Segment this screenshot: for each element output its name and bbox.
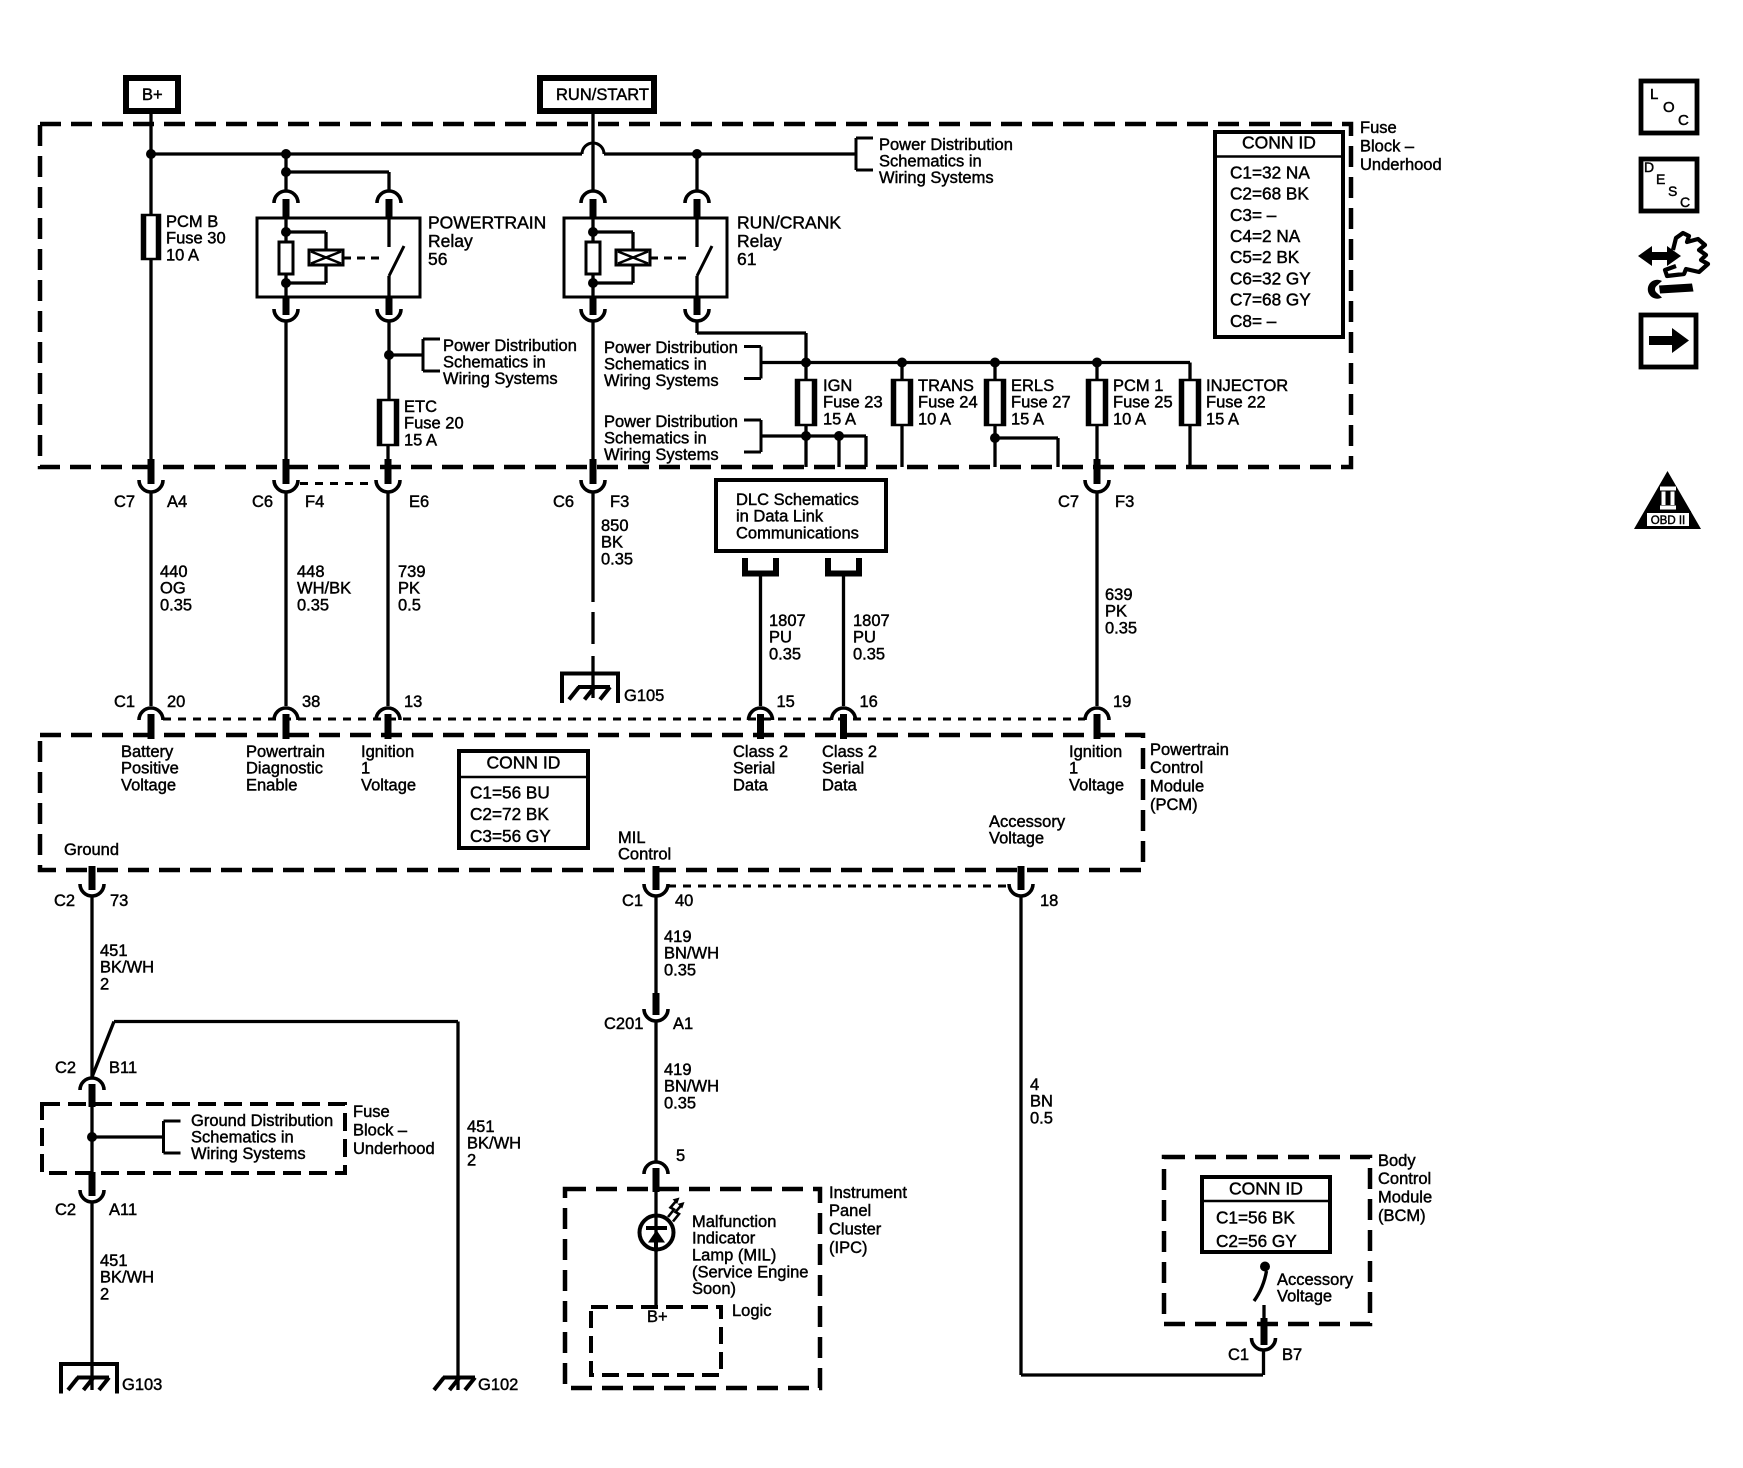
- svg-text:C1: C1: [114, 693, 135, 711]
- connector C1/B7: [1261, 1318, 1268, 1345]
- svg-text:D: D: [1644, 159, 1654, 175]
- svg-text:451: 451: [100, 942, 128, 960]
- svg-text:Cluster: Cluster: [829, 1221, 882, 1239]
- connector arc PCM pin 19: [1085, 708, 1109, 720]
- wire branch to G102: [92, 1022, 114, 1078]
- connector arc PCM pin 38: [274, 708, 298, 720]
- wire lower power distribution tap: [761, 434, 866, 437]
- svg-text:Relay: Relay: [428, 231, 473, 251]
- ground distribution dashed box: [42, 1104, 345, 1173]
- svg-text:PU: PU: [769, 629, 792, 647]
- battery terminal B+: [126, 78, 178, 111]
- svg-text:10 A: 10 A: [1113, 411, 1146, 429]
- relay RUN/CRANK 61 box: [564, 218, 727, 297]
- node coil top: [588, 227, 598, 237]
- fuse IGN Fuse 23 15A: [796, 380, 816, 425]
- svg-text:Schematics in: Schematics in: [879, 152, 982, 170]
- wire pin5 to MIL lamp: [654, 1192, 657, 1252]
- svg-text:10 A: 10 A: [166, 247, 199, 265]
- svg-text:BN/WH: BN/WH: [664, 945, 719, 963]
- svg-text:E6: E6: [409, 493, 429, 511]
- svg-text:2: 2: [100, 1286, 109, 1304]
- svg-text:PCM B: PCM B: [166, 213, 218, 231]
- connector C6/F4: [283, 459, 290, 484]
- svg-text:Fuse 22: Fuse 22: [1206, 394, 1266, 412]
- fuse PCM B Fuse 30 10A: [142, 215, 160, 259]
- svg-text:38: 38: [302, 693, 320, 711]
- svg-text:C1: C1: [1228, 1346, 1249, 1364]
- svg-text:INJECTOR: INJECTOR: [1206, 377, 1288, 395]
- svg-text:DLC Schematics: DLC Schematics: [736, 491, 859, 509]
- svg-text:Fuse: Fuse: [1360, 119, 1397, 137]
- node ground dist tap: [87, 1132, 97, 1142]
- svg-text:C3=56 GY: C3=56 GY: [470, 826, 551, 846]
- wire drop to powertrain relay coil: [284, 154, 287, 191]
- ground G105: [562, 674, 618, 704]
- relay POWERTRAIN 56 box: [257, 218, 420, 297]
- svg-text:PK: PK: [398, 580, 420, 598]
- icon OBD II: [1634, 471, 1701, 529]
- icon LOC: [1641, 81, 1697, 133]
- svg-text:40: 40: [675, 892, 693, 910]
- ground G103: [61, 1364, 117, 1394]
- node feeder/TRANS: [897, 358, 907, 368]
- svg-text:C8= –: C8= –: [1230, 311, 1277, 331]
- svg-text:Relay: Relay: [737, 231, 782, 251]
- svg-text:Accessory: Accessory: [989, 813, 1066, 831]
- wire IGN fuse output: [804, 425, 807, 467]
- svg-text:BN/WH: BN/WH: [664, 1078, 719, 1096]
- connector C7/A4: [148, 459, 155, 484]
- wire drop to run/crank switch: [695, 154, 698, 191]
- svg-text:B+: B+: [142, 86, 163, 104]
- svg-text:0.35: 0.35: [664, 962, 696, 980]
- svg-text:F3: F3: [610, 493, 629, 511]
- svg-text:C7=68 GY: C7=68 GY: [1230, 290, 1311, 310]
- terminal RUN/START: [540, 78, 654, 111]
- svg-text:15 A: 15 A: [1011, 411, 1044, 429]
- svg-text:1: 1: [1069, 760, 1078, 778]
- svg-text:1: 1: [361, 760, 370, 778]
- svg-text:BN: BN: [1030, 1093, 1053, 1111]
- node second tap: [834, 431, 844, 441]
- dotted link MIL-accessory: [668, 885, 1009, 888]
- svg-text:15 A: 15 A: [823, 411, 856, 429]
- svg-text:Power Distribution: Power Distribution: [879, 136, 1013, 154]
- connector arc powertrain relay pin bottom x=286: [283, 297, 290, 315]
- wire PCM1 fuse output: [1095, 425, 1098, 461]
- svg-text:Data: Data: [733, 777, 769, 795]
- svg-text:Body: Body: [1378, 1152, 1416, 1170]
- connector C7/F3: [1094, 459, 1101, 484]
- svg-text:0.35: 0.35: [1105, 620, 1137, 638]
- wire INJECTOR fuse output: [1188, 425, 1191, 467]
- svg-text:Fuse: Fuse: [353, 1103, 390, 1121]
- svg-text:451: 451: [100, 1252, 128, 1270]
- svg-text:BK/WH: BK/WH: [467, 1135, 521, 1153]
- svg-text:Module: Module: [1150, 778, 1204, 796]
- svg-text:0.35: 0.35: [853, 646, 885, 664]
- svg-text:1807: 1807: [853, 612, 890, 630]
- svg-text:Powertrain: Powertrain: [246, 743, 325, 761]
- wire feeder drops: [804, 363, 807, 381]
- svg-text:Communications: Communications: [736, 525, 859, 543]
- svg-text:A11: A11: [109, 1201, 137, 1219]
- svg-text:Fuse 20: Fuse 20: [404, 415, 464, 433]
- svg-text:C1=56 BU: C1=56 BU: [470, 782, 550, 802]
- svg-text:S: S: [1668, 183, 1677, 199]
- svg-text:Schematics in: Schematics in: [604, 429, 707, 447]
- DLC schematics box: [716, 480, 886, 551]
- fuse TRANS Fuse 24 10A: [892, 380, 912, 425]
- svg-text:TRANS: TRANS: [918, 377, 974, 395]
- svg-text:(PCM): (PCM): [1150, 796, 1198, 814]
- wire 1807 PU 0.35 (left): [759, 576, 762, 707]
- svg-text:Wiring Systems: Wiring Systems: [443, 370, 558, 388]
- wire ERLS fuse output: [993, 425, 996, 467]
- svg-text:C: C: [1680, 194, 1690, 210]
- svg-text:C2: C2: [55, 1201, 76, 1219]
- fuse ETC Fuse 20 15A: [378, 400, 398, 445]
- wire powertrain coil to C6/F4: [284, 321, 287, 461]
- svg-text:13: 13: [404, 693, 422, 711]
- connector arc PCM pin 13: [376, 708, 400, 720]
- svg-text:Wiring Systems: Wiring Systems: [879, 169, 994, 187]
- svg-text:CONN ID: CONN ID: [487, 753, 561, 773]
- svg-text:Schematics in: Schematics in: [604, 355, 707, 373]
- svg-text:POWERTRAIN: POWERTRAIN: [428, 213, 546, 233]
- connector arc PCM pin 20: [139, 708, 163, 720]
- svg-text:Voltage: Voltage: [1277, 1288, 1332, 1306]
- svg-text:PU: PU: [853, 629, 876, 647]
- wire inside ground dist box: [90, 1107, 93, 1172]
- svg-text:440: 440: [160, 563, 188, 581]
- svg-text:Voltage: Voltage: [989, 830, 1044, 848]
- svg-text:Serial: Serial: [822, 760, 864, 778]
- svg-text:Indicator: Indicator: [692, 1230, 756, 1248]
- svg-text:Battery: Battery: [121, 743, 174, 761]
- node coil bottom: [281, 278, 291, 288]
- icon DESC: [1641, 159, 1697, 211]
- svg-text:RUN/CRANK: RUN/CRANK: [737, 213, 841, 233]
- svg-text:PK: PK: [1105, 603, 1127, 621]
- connector C2/A11: [89, 1172, 96, 1196]
- CONN ID table (PCM): [459, 751, 588, 848]
- svg-text:639: 639: [1105, 586, 1133, 604]
- svg-text:Power Distribution: Power Distribution: [604, 413, 738, 431]
- svg-text:L: L: [1650, 86, 1658, 103]
- svg-text:CONN ID: CONN ID: [1229, 1179, 1303, 1199]
- wire 451 BK/WH 2 (upper): [90, 896, 93, 1077]
- connector arc run/crank relay pin bottom x=697: [694, 297, 701, 315]
- node coil bottom: [588, 278, 598, 288]
- wire 4 BN 0.5: [1019, 896, 1022, 1375]
- svg-text:Power Distribution: Power Distribution: [443, 337, 577, 355]
- connector C1/40 MIL pin: [653, 866, 660, 890]
- wire branch to powertrain switch pin: [286, 170, 389, 173]
- svg-text:F3: F3: [1115, 493, 1134, 511]
- svg-text:451: 451: [467, 1118, 495, 1136]
- svg-text:56: 56: [428, 249, 447, 269]
- svg-text:Positive: Positive: [121, 760, 179, 778]
- CONN ID table (fuse block): [1215, 132, 1343, 337]
- node coil top: [281, 227, 291, 237]
- wire 739 PK 0.5: [386, 492, 389, 706]
- wire lamp to logic: [654, 1249, 657, 1308]
- svg-text:BK/WH: BK/WH: [100, 959, 154, 977]
- svg-text:C6=32 GY: C6=32 GY: [1230, 268, 1311, 288]
- svg-text:G105: G105: [624, 687, 664, 705]
- connector arc PCM pin 15: [749, 708, 773, 720]
- svg-text:Enable: Enable: [246, 777, 297, 795]
- connector arc relay pin top x=389: [377, 191, 401, 203]
- connector 18 accessory pin: [1018, 866, 1025, 890]
- dotted link F4-E6: [300, 482, 375, 485]
- PCM dashed box: [40, 735, 1143, 870]
- svg-text:C5=2 BK: C5=2 BK: [1230, 247, 1300, 267]
- run/crank relay actuator dashed link: [650, 257, 689, 260]
- svg-text:C2=56 GY: C2=56 GY: [1216, 1231, 1297, 1251]
- wire 1807 PU 0.35 (right): [842, 576, 845, 707]
- svg-text:19: 19: [1113, 693, 1131, 711]
- svg-text:Fuse 30: Fuse 30: [166, 230, 226, 248]
- svg-text:Ignition: Ignition: [1069, 743, 1122, 761]
- svg-text:16: 16: [860, 693, 878, 711]
- svg-text:Fuse 24: Fuse 24: [918, 394, 978, 412]
- connector arc run/crank relay pin bottom x=593: [590, 297, 597, 315]
- svg-text:C2=68 BK: C2=68 BK: [1230, 184, 1309, 204]
- svg-text:(IPC): (IPC): [829, 1239, 868, 1257]
- svg-text:ERLS: ERLS: [1011, 377, 1054, 395]
- svg-text:Ignition: Ignition: [361, 743, 414, 761]
- connector arc powertrain relay pin bottom x=389: [386, 297, 393, 315]
- svg-text:C2: C2: [54, 892, 75, 910]
- svg-text:15 A: 15 A: [1206, 411, 1239, 429]
- run/crank relay coil resistor: [591, 218, 594, 242]
- svg-text:C1=56 BK: C1=56 BK: [1216, 1207, 1295, 1227]
- svg-text:61: 61: [737, 249, 756, 269]
- svg-text:in Data Link: in Data Link: [736, 508, 824, 526]
- IPC dashed box: [565, 1189, 820, 1388]
- svg-text:10 A: 10 A: [918, 411, 951, 429]
- svg-text:ETC: ETC: [404, 398, 437, 416]
- wire fuse feeder: [761, 361, 1190, 364]
- svg-text:BK: BK: [601, 534, 623, 552]
- wire 448 WH/BK 0.35: [284, 492, 287, 706]
- svg-text:C1=32 NA: C1=32 NA: [1230, 162, 1310, 182]
- svg-text:G103: G103: [122, 1376, 162, 1394]
- icon forward arrow: [1641, 315, 1696, 367]
- logic dashed box: [591, 1307, 721, 1375]
- svg-text:739: 739: [398, 563, 426, 581]
- svg-text:Fuse 27: Fuse 27: [1011, 394, 1071, 412]
- connector E6: [385, 459, 392, 484]
- node bus/B+: [146, 149, 156, 159]
- svg-text:Control: Control: [618, 846, 671, 864]
- fuse INJECTOR Fuse 22 15A: [1180, 380, 1200, 425]
- svg-text:MIL: MIL: [618, 829, 646, 847]
- svg-text:PCM 1: PCM 1: [1113, 377, 1163, 395]
- svg-text:2: 2: [467, 1152, 476, 1170]
- DLC connector half pin 15: [745, 558, 776, 574]
- wire run/crank switch to fuse feeder: [695, 321, 698, 333]
- wire B+ stem: [149, 111, 152, 154]
- bracket power distribution (mid left): [422, 339, 425, 371]
- MIL indicator lamp: [640, 1216, 674, 1250]
- svg-text:Control: Control: [1378, 1170, 1431, 1188]
- svg-text:Powertrain: Powertrain: [1150, 741, 1229, 759]
- svg-text:O: O: [1663, 99, 1675, 116]
- wire B7 to accessory run: [1262, 1350, 1265, 1375]
- powertrain relay coil X-box: [286, 230, 326, 233]
- svg-text:15: 15: [777, 693, 795, 711]
- svg-text:C7: C7: [114, 493, 135, 511]
- powertrain relay switch: [387, 218, 390, 247]
- wire 451 BK/WH 2 (lower): [90, 1202, 93, 1390]
- svg-text:B+: B+: [647, 1308, 668, 1326]
- svg-text:Voltage: Voltage: [1069, 777, 1124, 795]
- svg-text:A1: A1: [673, 1015, 693, 1033]
- svg-text:Malfunction: Malfunction: [692, 1213, 776, 1231]
- svg-text:850: 850: [601, 517, 629, 535]
- svg-text:Fuse 25: Fuse 25: [1113, 394, 1173, 412]
- wire B+ bus: [151, 152, 582, 155]
- svg-text:Soon): Soon): [692, 1280, 736, 1298]
- CONN ID table (BCM): [1202, 1177, 1330, 1252]
- svg-text:C3= –: C3= –: [1230, 205, 1277, 225]
- wire ETC fuse to E6: [386, 445, 389, 461]
- node powertrain branch: [281, 167, 291, 177]
- svg-text:Class 2: Class 2: [822, 743, 877, 761]
- svg-text:Ground: Ground: [64, 841, 119, 859]
- svg-text:IGN: IGN: [823, 377, 852, 395]
- BCM accessory voltage switch: [1260, 1262, 1270, 1272]
- ground G102: [443, 1376, 475, 1380]
- connector C2/73 ground pin: [89, 866, 96, 890]
- svg-text:Fuse 23: Fuse 23: [823, 394, 883, 412]
- wire 440 OG 0.35: [149, 492, 152, 706]
- svg-text:419: 419: [664, 928, 692, 946]
- svg-text:BK/WH: BK/WH: [100, 1269, 154, 1287]
- wire 639 PK 0.35: [1095, 492, 1098, 706]
- svg-text:B11: B11: [109, 1059, 137, 1077]
- svg-text:Voltage: Voltage: [121, 777, 176, 795]
- svg-text:C2: C2: [55, 1059, 76, 1077]
- svg-text:Accessory: Accessory: [1277, 1271, 1354, 1289]
- connector C2/B11: [80, 1078, 104, 1090]
- connector arc PCM pin 16: [832, 708, 856, 720]
- wire 419 BN/WH 0.35 (upper): [654, 896, 657, 993]
- svg-text:0.5: 0.5: [1030, 1110, 1053, 1128]
- svg-text:C7: C7: [1058, 493, 1079, 511]
- svg-text:C6: C6: [252, 493, 273, 511]
- svg-text:Class 2: Class 2: [733, 743, 788, 761]
- svg-text:OBD II: OBD II: [1651, 515, 1686, 527]
- node feeder/ERLS: [990, 358, 1000, 368]
- svg-text:Wiring Systems: Wiring Systems: [191, 1145, 306, 1163]
- svg-text:73: 73: [110, 892, 128, 910]
- fuse ERLS Fuse 27 15A: [985, 380, 1005, 425]
- svg-text:C201: C201: [604, 1015, 643, 1033]
- run/crank relay coil X-box: [593, 230, 633, 233]
- DLC connector half pin 16: [828, 558, 859, 574]
- wire run/crank coil to C6/F3: [591, 321, 594, 461]
- wire 419 BN/WH 0.35 (lower): [654, 1021, 657, 1162]
- svg-text:Data: Data: [822, 777, 858, 795]
- svg-text:Lamp (MIL): Lamp (MIL): [692, 1247, 776, 1265]
- bracket to Power Distribution (top right): [855, 138, 858, 170]
- wire 850 BK 0.35 to G105: [591, 492, 594, 602]
- svg-text:WH/BK: WH/BK: [297, 580, 351, 598]
- svg-text:F4: F4: [305, 493, 324, 511]
- node IGN output tap: [801, 431, 811, 441]
- svg-text:448: 448: [297, 563, 325, 581]
- svg-text:Wiring Systems: Wiring Systems: [604, 446, 719, 464]
- bracket power distribution (feeder): [760, 347, 763, 379]
- wire TRANS fuse output: [900, 425, 903, 467]
- svg-text:RUN/START: RUN/START: [556, 86, 649, 104]
- svg-text:Instrument: Instrument: [829, 1184, 907, 1202]
- svg-text:0.35: 0.35: [664, 1095, 696, 1113]
- svg-text:Diagnostic: Diagnostic: [246, 760, 323, 778]
- svg-text:1807: 1807: [769, 612, 806, 630]
- svg-text:A4: A4: [167, 493, 187, 511]
- svg-text:B7: B7: [1282, 1346, 1302, 1364]
- svg-text:Ground Distribution: Ground Distribution: [191, 1112, 333, 1130]
- svg-text:OG: OG: [160, 580, 186, 598]
- node feeder/PCM1: [1092, 358, 1102, 368]
- svg-text:C: C: [1678, 112, 1689, 129]
- connector C201/A1: [653, 993, 660, 1015]
- connector arc relay pin top x=697: [685, 191, 709, 203]
- svg-text:C4=2 NA: C4=2 NA: [1230, 226, 1301, 246]
- svg-text:C1: C1: [622, 892, 643, 910]
- svg-text:Module: Module: [1378, 1189, 1432, 1207]
- svg-text:0.35: 0.35: [160, 597, 192, 615]
- svg-text:4: 4: [1030, 1076, 1039, 1094]
- fuse block underhood dashed box: [40, 124, 1351, 467]
- node ERLS output tap: [990, 433, 1000, 443]
- svg-text:Schematics in: Schematics in: [443, 353, 546, 371]
- svg-text:15 A: 15 A: [404, 432, 437, 450]
- wire powertrain switch to ETC fuse: [387, 321, 390, 400]
- node feeder/IGN: [801, 358, 811, 368]
- fuse PCM 1 Fuse 25 10A: [1087, 380, 1107, 425]
- svg-text:Schematics in: Schematics in: [191, 1128, 294, 1146]
- powertrain relay actuator dashed link: [343, 257, 382, 260]
- connector arc relay pin top x=286: [274, 191, 298, 203]
- svg-text:(Service Engine: (Service Engine: [692, 1263, 808, 1281]
- powertrain relay coil resistor: [284, 218, 287, 242]
- connector row dotted line: [163, 718, 1085, 721]
- svg-text:5: 5: [676, 1147, 685, 1165]
- svg-text:CONN ID: CONN ID: [1242, 133, 1316, 153]
- svg-text:Logic: Logic: [732, 1302, 771, 1320]
- svg-text:0.35: 0.35: [769, 646, 801, 664]
- svg-text:Power Distribution: Power Distribution: [604, 339, 738, 357]
- node bus/powertrain-relay: [281, 149, 291, 159]
- node tap to power distribution: [384, 350, 394, 360]
- wire RUN/START stem: [591, 111, 594, 191]
- svg-text:Panel: Panel: [829, 1202, 871, 1220]
- svg-text:(BCM): (BCM): [1378, 1207, 1426, 1225]
- svg-text:G102: G102: [478, 1376, 518, 1394]
- svg-text:0.5: 0.5: [398, 597, 421, 615]
- node bus/run-crank-switch: [692, 149, 702, 159]
- svg-text:Serial: Serial: [733, 760, 775, 778]
- svg-text:0.35: 0.35: [297, 597, 329, 615]
- svg-text:Underhood: Underhood: [1360, 156, 1442, 174]
